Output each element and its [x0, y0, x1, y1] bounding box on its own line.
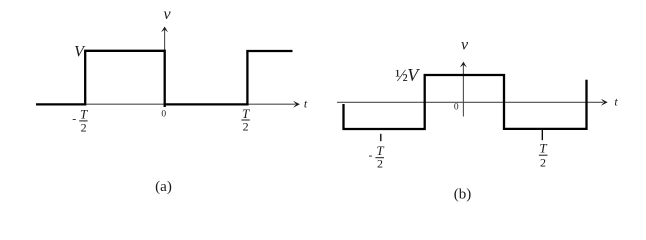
fraction bar of -T/2 (b) — [375, 157, 384, 159]
v-axis (a) — [164, 30, 166, 105]
waveform (b) right partial rising edge — [585, 80, 587, 130]
fraction bar of -T/2 (a) — [79, 120, 87, 122]
svg-text:(b): (b) — [454, 187, 472, 203]
svg-text:-: - — [369, 148, 373, 162]
svg-text:T: T — [539, 141, 547, 156]
svg-text:2: 2 — [81, 120, 87, 134]
svg-text:T: T — [80, 107, 88, 122]
fraction bar of T/2 (a) — [241, 119, 249, 121]
svg-text:0: 0 — [161, 110, 166, 120]
t-axis arrowhead (a) — [293, 101, 300, 108]
svg-text:v: v — [461, 37, 469, 54]
svg-text:(a): (a) — [155, 179, 172, 195]
t-axis (b) — [337, 101, 603, 103]
svg-text:½: ½ — [395, 66, 408, 85]
svg-text:0: 0 — [454, 103, 459, 113]
svg-text:-: - — [72, 112, 76, 126]
svg-text:2: 2 — [540, 156, 546, 170]
svg-text:t: t — [304, 97, 308, 111]
waveform (a) falling-edge stub below axis — [164, 104, 166, 107]
v-axis arrowhead (a) — [161, 27, 168, 33]
svg-text:2: 2 — [243, 120, 249, 134]
svg-text:V: V — [407, 65, 420, 85]
v-axis (b) — [462, 65, 464, 117]
tick at T/2 (b) — [541, 130, 543, 140]
waveform (b) square wave — [344, 75, 587, 129]
svg-text:T: T — [242, 106, 250, 121]
svg-text:t: t — [614, 95, 618, 109]
svg-text:v: v — [163, 6, 171, 23]
waveform (a) square wave — [36, 51, 293, 105]
t-axis (a) — [36, 103, 296, 105]
t-axis arrowhead (b) — [601, 99, 608, 106]
svg-text:2: 2 — [377, 157, 383, 171]
v-axis arrowhead (b) — [460, 62, 467, 68]
fraction bar of T/2 (b) — [539, 154, 548, 156]
tick at -T/2 (b) — [380, 134, 382, 141]
